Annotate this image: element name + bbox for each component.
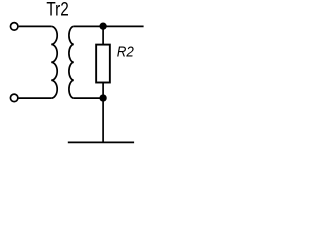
- svg-text:Tr2: Tr2: [46, 0, 68, 21]
- terminal X2 (bottom-left): [10, 94, 18, 102]
- resistor R2: [96, 45, 110, 83]
- wire secondary top to right edge: [74, 25, 144, 27]
- node B junction dot (bottom): [99, 94, 106, 101]
- wire node B down to bottom bus: [102, 98, 104, 142]
- wire node A to resistor top: [102, 26, 104, 45]
- transformer Tr2 secondary winding: [69, 26, 74, 98]
- wire bottom-left terminal to primary: [19, 97, 52, 99]
- terminal X1 (top-left): [10, 23, 18, 31]
- transformer Tr2 primary winding: [51, 26, 57, 98]
- wire secondary bottom to node B: [74, 97, 103, 99]
- node A junction dot (top): [99, 23, 106, 30]
- wire bottom bus: [68, 141, 134, 143]
- svg-text:R2: R2: [117, 44, 134, 60]
- wire resistor bottom to node B: [102, 83, 104, 99]
- wire top-left terminal to primary: [19, 25, 52, 27]
